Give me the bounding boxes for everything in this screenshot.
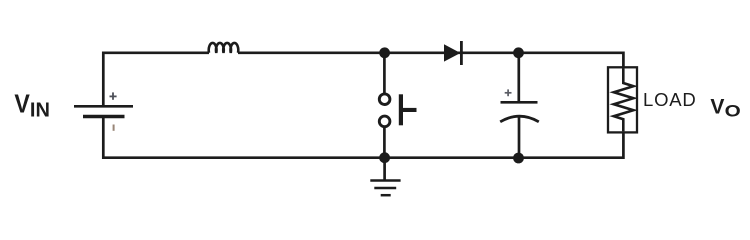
svg-text:IN: IN xyxy=(30,99,50,121)
svg-text:V: V xyxy=(14,90,30,118)
svg-text:LOAD: LOAD xyxy=(643,89,697,110)
svg-text:V: V xyxy=(710,94,725,118)
svg-text:O: O xyxy=(725,102,741,120)
